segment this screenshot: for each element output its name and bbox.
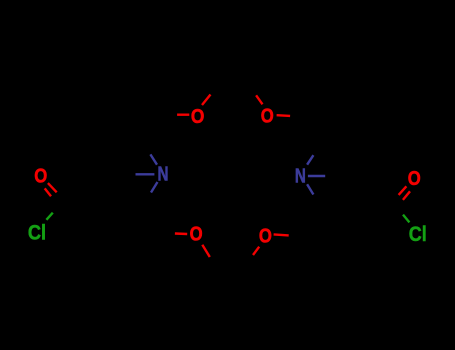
wire O3-C half-bond left horizontal: [175, 232, 187, 235]
svg-text:O: O: [261, 105, 274, 127]
carbonyl double bond C=O left, line 2: [45, 188, 51, 196]
wire O2-C half-bond up-left diagonal: [256, 95, 262, 104]
svg-text:O: O: [259, 226, 272, 248]
svg-text:N: N: [158, 162, 169, 185]
wire N1-C half-bond left horizontal: [136, 173, 155, 175]
carbonyl double bond C=O left, line 1: [48, 183, 57, 192]
svg-text:O: O: [190, 224, 203, 246]
wire N2-C half-bond down-right diagonal: [307, 184, 313, 194]
wire O1-C half-bond left horizontal: [177, 113, 189, 115]
svg-text:N: N: [295, 165, 306, 188]
svg-text:Cl: Cl: [409, 222, 427, 246]
wire N2-C half-bond up-right diagonal: [307, 155, 313, 165]
wire N1-C half-bond up-left diagonal: [150, 154, 157, 164]
carbonyl double bond C=O right, line 1: [399, 186, 407, 195]
wire O1-C half-bond up-right diagonal: [202, 95, 211, 106]
wire O4-C half-bond right horizontal: [274, 234, 289, 235]
wire O2-C half-bond right horizontal: [277, 114, 291, 117]
wire N1-C half-bond down-left diagonal: [151, 182, 158, 193]
svg-text:O: O: [34, 166, 47, 188]
svg-text:O: O: [191, 106, 205, 128]
svg-text:Cl: Cl: [28, 221, 46, 245]
svg-text:O: O: [408, 168, 421, 190]
carbonyl double bond C=O right, line 2: [403, 191, 410, 200]
wire Cl2-C half-bond up-left diagonal: [403, 215, 409, 223]
wire N2-C half-bond right horizontal: [308, 175, 325, 177]
wire Cl1-C half-bond up-right diagonal: [46, 213, 52, 220]
wire O4-C half-bond down-left diagonal: [253, 247, 259, 255]
wire O3-C half-bond down-right diagonal: [202, 245, 210, 257]
